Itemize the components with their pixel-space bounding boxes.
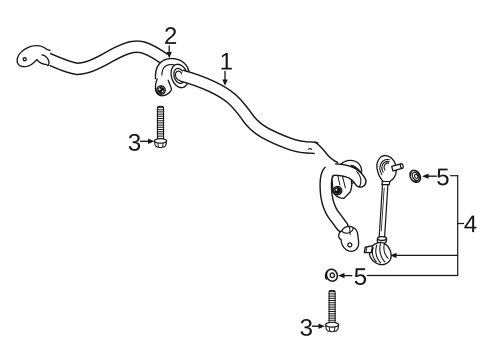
bolt 3 bottom flange head — [326, 322, 339, 331]
link 4 bottom ball joint housing — [370, 242, 392, 264]
link 4 bottom stud — [364, 246, 372, 253]
link 4 top ball joint housing — [377, 156, 396, 185]
leader arrow 3 bottom — [313, 324, 325, 329]
leader arrow 1 — [222, 72, 227, 86]
washer shadow crescent — [349, 165, 361, 177]
stabilizer link 4 rod — [381, 185, 385, 238]
leader arrow 3 left — [141, 139, 155, 144]
bar end front tube with down hook — [326, 170, 361, 227]
bracket 2 foot — [155, 76, 171, 96]
bushing outer ring — [168, 62, 191, 90]
stabilizer bar 1 main tube (left to mid descent) — [44, 47, 164, 69]
washer disc behind bar end — [332, 156, 366, 189]
bushing mid ring — [172, 67, 187, 85]
leader arrow 2 — [167, 46, 172, 58]
bar end hole — [23, 58, 26, 61]
bolt 3 left flange head — [154, 139, 166, 148]
bar knee over hook — [309, 142, 338, 171]
label 4 — [464, 216, 476, 233]
stabilizer bar right of bushing — [182, 76, 334, 171]
bracket 2 strap — [159, 62, 186, 79]
bushing bore — [174, 70, 183, 81]
label 1 — [221, 53, 231, 70]
leader arrow 5 top — [422, 174, 436, 179]
bar end curl line — [42, 55, 49, 66]
plate bolt head — [333, 186, 341, 194]
link mount plate with hole — [332, 173, 352, 199]
bolt 3 bottom shank — [329, 290, 336, 322]
bracket arch interior blank — [162, 65, 183, 80]
bolt 3 left shank — [157, 106, 164, 139]
nut 5 bottom — [325, 267, 340, 283]
arrow to link lower joint — [390, 253, 396, 258]
label 3 left — [129, 134, 140, 151]
link 4 lower collar — [377, 237, 386, 244]
callout 4 bracket lines — [367, 176, 463, 276]
leader arrow 5 bottom — [338, 273, 352, 278]
label 3 bottom — [301, 319, 312, 336]
label 2 — [165, 27, 176, 44]
bracket strap inner line — [162, 65, 182, 77]
label 5 top — [437, 169, 448, 186]
nut 5 top — [408, 168, 423, 184]
label 5 bottom — [355, 268, 366, 285]
bar end eyelet — [339, 226, 359, 251]
link 4 top stud — [392, 163, 404, 171]
bar left end paddle eye — [17, 46, 50, 67]
bar end cap face line — [357, 172, 361, 187]
bracket bolt head — [157, 86, 166, 95]
